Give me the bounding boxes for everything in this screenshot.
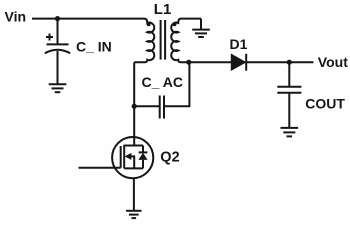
transistor Q2 internals: [121, 145, 148, 169]
wire C_AC loop left side: [133, 62, 135, 137]
capacitor C_AC: [159, 96, 161, 119]
wire C_AC left lead: [134, 105, 160, 107]
wire COUT bottom lead: [288, 93, 290, 128]
capacitor C_IN: [47, 43, 69, 45]
inductor L1 secondary winding: [171, 19, 201, 63]
wire Q2 gate lead: [79, 167, 121, 169]
wire C_AC right lead and loop right side: [164, 62, 189, 106]
wire Q2 source lead: [133, 178, 135, 211]
wire Q2 drain lead: [133, 137, 135, 146]
ground (below C_IN): [49, 84, 67, 92]
gate bar: [120, 146, 122, 168]
node junction dot secondary/D1: [186, 60, 191, 65]
node junction dot Vout/COUT: [287, 60, 292, 65]
body connection with arrow: [131, 156, 134, 168]
inductor L1 primary winding: [134, 19, 154, 63]
wire top rail Vin to L1 primary top: [32, 18, 145, 20]
svg-text:COUT: COUT: [305, 96, 345, 112]
ground (below COUT): [281, 128, 299, 136]
ground (below Q2): [126, 211, 141, 218]
capacitor COUT: [277, 86, 301, 88]
capacitor C_IN plus sign: [46, 34, 53, 41]
svg-text:Q2: Q2: [160, 150, 179, 166]
node junction dot C_AC left: [132, 104, 137, 109]
polarity dot secondary: [173, 22, 177, 26]
ground (top right): [192, 30, 210, 37]
wire COUT top lead: [288, 62, 290, 87]
svg-text:C_ AC: C_ AC: [142, 74, 184, 90]
svg-text:Vin: Vin: [5, 9, 27, 25]
svg-text:L1: L1: [154, 1, 172, 18]
svg-text:C_IN: C_IN: [76, 39, 112, 55]
wire secondary to D1 anode: [189, 61, 232, 63]
polarity dot primary: [147, 22, 151, 26]
drain contact bar: [124, 145, 143, 147]
channel bar: [123, 145, 125, 169]
transformer core: [160, 20, 162, 60]
diode D1: [231, 54, 245, 70]
wire C_IN bottom lead: [57, 51, 59, 84]
transistor Q2 body circle: [112, 137, 153, 178]
node junction dot Vin/C_IN: [55, 16, 60, 21]
body diode: [142, 146, 144, 153]
svg-text:D1: D1: [230, 36, 248, 52]
wire C_IN top lead: [57, 19, 59, 44]
source contact bar: [124, 167, 143, 169]
wire D1 cathode to Vout: [246, 61, 313, 63]
svg-text:Vout: Vout: [318, 54, 348, 70]
wire secondary top to ground: [200, 19, 202, 30]
